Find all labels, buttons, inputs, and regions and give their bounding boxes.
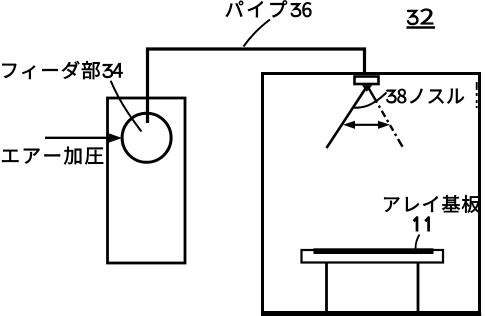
label air pressurization (エアー加圧) (2, 147, 103, 165)
chamber box (right enclosure) (263, 74, 480, 313)
feeder box 34 (108, 98, 186, 263)
figure number 32 (407, 9, 436, 28)
stage (table top) (302, 250, 444, 263)
stage right leg (417, 263, 420, 313)
leader line from フィーダ部34 label to feeder circle (111, 81, 142, 132)
spray cone left edge (solid) (327, 87, 367, 148)
leader line from パイプ36 label to pipe (244, 20, 271, 47)
label feeder section 34 (フィーダ部34) (2, 61, 122, 79)
label 11 (414, 218, 429, 232)
spray width double-headed arrow (343, 121, 390, 129)
small scan marks inside right edge (476, 82, 478, 108)
array substrate 11 (black slab) (314, 248, 434, 254)
label array substrate (アレイ基板) (384, 195, 480, 213)
label nozzle 38 (38ノスル) (387, 89, 464, 104)
nozzle tip (filled triangle) (362, 85, 372, 92)
spray cone right edge (dash-dot) (368, 87, 404, 149)
stage left leg (325, 263, 328, 313)
pipe 36 (wire from feeder to nozzle) (148, 49, 365, 123)
nozzle block 38 (355, 77, 379, 85)
air inlet arrow (45, 133, 122, 143)
leader line from 11 to substrate (416, 235, 420, 249)
label pipe 36 (パイプ36) (226, 0, 312, 17)
feeder circle (tank) (122, 113, 171, 162)
leader line from 38ノスル label to spray cone (354, 93, 387, 108)
